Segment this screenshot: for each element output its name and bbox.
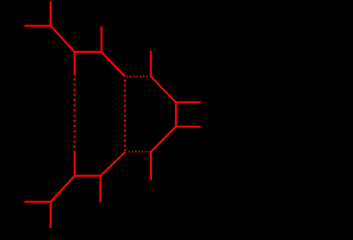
wire: down leg at I (99, 176, 101, 203)
wire: vertical edge A-J solid lower part (74, 151, 76, 176)
wire: left leg at K (25, 201, 51, 203)
wire: top-left chain (leg up at V1, diagonal V1-A, edge A-B, diagonal B-C) (51, 1, 125, 76)
wire: right leg at F, diagonal F-G, down leg at G (151, 127, 201, 180)
wire: dotted horizontal edge G-H (128, 151, 149, 153)
wire: dotted horizontal edge C-D (126, 76, 149, 78)
wire: vertical edge E-F (175, 102, 177, 126)
wire: dotted vertical edge C-H (124, 80, 126, 151)
wire: diagonal H-I, edge I-J, diagonal J-K, down leg at K (51, 152, 126, 228)
wire: vertical edge A-J solid upper part (74, 52, 76, 76)
wire: up leg at B (101, 26, 103, 52)
wire: up leg at D, diagonal D-E, right leg at E (151, 51, 201, 103)
wire: left leg at V1 (25, 25, 51, 27)
wire: vertical edge A-J dotted middle part (74, 78, 76, 150)
